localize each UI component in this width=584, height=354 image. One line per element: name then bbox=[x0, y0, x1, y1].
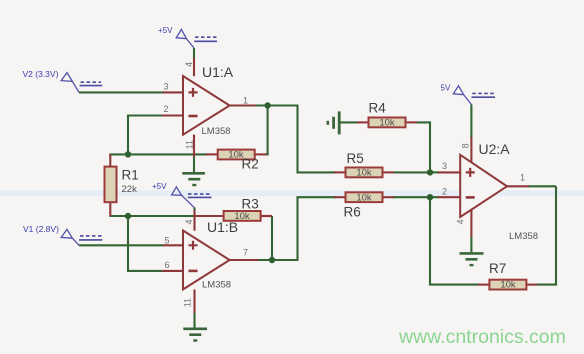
svg-text:R2: R2 bbox=[242, 157, 259, 172]
junction node A (U2 pin3) bbox=[427, 169, 433, 175]
svg-text:10k: 10k bbox=[356, 168, 372, 179]
pin 4 U2 bbox=[470, 210, 472, 238]
ground reference (rotated, left of R4) bbox=[328, 111, 339, 134]
pin 11 U1:A bbox=[193, 135, 195, 157]
junction node U1:A output bbox=[264, 102, 270, 108]
input terminal V2 bbox=[23, 69, 103, 92]
pin 2 U1:A bbox=[162, 114, 183, 116]
svg-text:2: 2 bbox=[442, 187, 447, 197]
junction node B (U2 pin2) bbox=[427, 194, 433, 200]
svg-text:6: 6 bbox=[164, 260, 169, 270]
svg-text:R3: R3 bbox=[242, 197, 259, 212]
svg-text:5: 5 bbox=[164, 236, 169, 246]
svg-text:4: 4 bbox=[455, 219, 465, 224]
wire node B down to R7 left bbox=[430, 197, 480, 284]
resistor R4 bbox=[357, 101, 417, 129]
svg-text:+5V: +5V bbox=[158, 26, 173, 35]
pin 5 U1:B bbox=[163, 244, 183, 246]
wire ground-ref to R4 left bbox=[340, 121, 359, 123]
wire R1 bottom row to R3 left bbox=[109, 215, 197, 217]
wire R2 right to U1:A output node bbox=[266, 106, 268, 155]
ground under U1:B bbox=[183, 329, 207, 341]
junction node U1:B output bbox=[269, 257, 275, 263]
wire pin6 branch bbox=[128, 216, 162, 271]
ground under U2 bbox=[460, 253, 484, 265]
power terminal +5V (mid, U1:B) bbox=[152, 182, 212, 208]
svg-text:LM358: LM358 bbox=[509, 231, 538, 242]
svg-text:R6: R6 bbox=[344, 205, 361, 220]
svg-text:3: 3 bbox=[442, 161, 447, 171]
wire R5 right to node A bbox=[393, 171, 431, 173]
wire R4 right down to node A bbox=[416, 122, 431, 172]
resistor R6 bbox=[334, 192, 394, 219]
pin 11 U1:B bbox=[193, 289, 195, 313]
svg-text:10k: 10k bbox=[234, 211, 250, 222]
wire +5V top to U1:A pin4 bbox=[193, 48, 195, 60]
wire V2 input to pin3 bbox=[79, 91, 164, 93]
pin R3 right bbox=[262, 215, 273, 217]
svg-text:10k: 10k bbox=[379, 118, 395, 129]
svg-text:11: 11 bbox=[183, 298, 193, 307]
pin 1 U2 bbox=[507, 185, 529, 187]
svg-text:R1: R1 bbox=[122, 168, 139, 183]
resistor R1 (vertical 22k) bbox=[105, 154, 139, 216]
wire U1:B output to R6 bbox=[258, 197, 337, 260]
wire node A to U2 pin3 bbox=[430, 171, 439, 173]
svg-text:U1:A: U1:A bbox=[202, 64, 234, 80]
svg-text:1: 1 bbox=[243, 96, 248, 106]
power terminal +5V (top, U1:A) bbox=[158, 26, 217, 48]
wire R3 right to U1:B output node bbox=[271, 216, 273, 260]
junction node R1 top bbox=[125, 151, 131, 157]
svg-text:R4: R4 bbox=[369, 101, 387, 116]
svg-text:1: 1 bbox=[520, 173, 525, 183]
svg-text:8: 8 bbox=[461, 143, 471, 148]
pin 6 U1:B bbox=[162, 270, 183, 272]
faint blue band artifact bbox=[0, 190, 584, 196]
pin 3 U2 bbox=[438, 171, 460, 173]
wire U1:A pin11 to ground bbox=[193, 156, 195, 172]
svg-text:4: 4 bbox=[184, 219, 194, 224]
svg-text:2: 2 bbox=[163, 104, 168, 114]
op-amp U1:A bbox=[183, 64, 234, 137]
pin 3 U1:A bbox=[163, 91, 183, 93]
svg-text:V1 (2.8V): V1 (2.8V) bbox=[23, 224, 59, 234]
svg-text:7: 7 bbox=[243, 248, 248, 258]
svg-text:R7: R7 bbox=[489, 261, 506, 276]
ground under U1:A bbox=[182, 173, 205, 185]
wire pin2 feedback branch bbox=[128, 116, 162, 155]
svg-text:3: 3 bbox=[163, 82, 168, 92]
wire R1 top row to R2 left bbox=[109, 153, 208, 155]
svg-text:www.cntronics.com: www.cntronics.com bbox=[398, 326, 566, 348]
input terminal V1 bbox=[23, 224, 102, 245]
resistor R2 bbox=[206, 150, 267, 172]
pin 8 U2 bbox=[470, 137, 472, 163]
wire +5V mid to U1:B pin4 bbox=[193, 208, 195, 212]
wire U2 pin4 to ground bbox=[470, 236, 472, 252]
svg-text:+5V: +5V bbox=[152, 182, 167, 191]
resistor R5 bbox=[334, 151, 394, 179]
svg-text:U2:A: U2:A bbox=[479, 141, 511, 157]
wire R7 right to U2 output bbox=[536, 186, 557, 284]
op-amp U2:A bbox=[460, 141, 538, 242]
wire 5V to U2 pin8 bbox=[470, 105, 472, 139]
svg-text:11: 11 bbox=[184, 140, 194, 149]
op-amp U1:B bbox=[183, 219, 238, 291]
wire V1 input to pin5 bbox=[79, 244, 164, 246]
svg-text:LM358: LM358 bbox=[202, 280, 231, 291]
pin 2 U2 bbox=[438, 196, 460, 198]
pin 4 U1:B bbox=[193, 210, 195, 231]
svg-text:R5: R5 bbox=[347, 151, 364, 166]
pin 1 U1:A bbox=[230, 104, 256, 106]
svg-text:4: 4 bbox=[184, 62, 194, 67]
svg-text:5V: 5V bbox=[441, 84, 451, 93]
svg-text:LM358: LM358 bbox=[202, 126, 231, 137]
power terminal 5V (U2) bbox=[441, 84, 496, 105]
resistor R3 bbox=[196, 197, 273, 223]
resistor R7 bbox=[478, 261, 537, 291]
wire U1:B pin11 to ground bbox=[193, 312, 195, 328]
wire R6 right to node B bbox=[393, 196, 440, 198]
svg-text:10k: 10k bbox=[356, 192, 372, 203]
junction node R1 bottom bbox=[125, 213, 131, 219]
wire U1:A output to R5 bbox=[255, 106, 336, 173]
pin 7 U1:B bbox=[230, 259, 259, 261]
wire U2 output bbox=[528, 185, 556, 187]
svg-text:V2 (3.3V): V2 (3.3V) bbox=[23, 69, 59, 79]
pin 4 U1:A bbox=[193, 58, 195, 76]
svg-text:10k: 10k bbox=[500, 280, 516, 291]
svg-text:22k: 22k bbox=[122, 184, 138, 195]
